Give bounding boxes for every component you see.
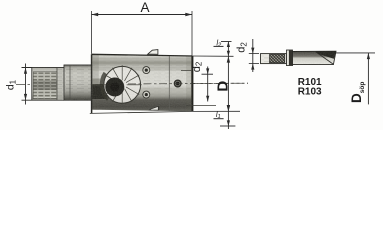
body of boring head (bottom fill edge is shading band, outline lower)	[92, 54, 193, 111]
bar body	[293, 51, 337, 64]
dimension A: dimension line with arrows	[92, 13, 193, 16]
neck streaks	[57, 68, 63, 100]
bottom edge extension line to the right	[192, 110, 240, 112]
dimension d2 bar: outside arrows	[251, 39, 254, 72]
top edge extension line to the right	[192, 55, 234, 57]
bar shank	[261, 54, 287, 64]
dimension A: left extension line	[91, 11, 93, 54]
carbide insert (dark)	[316, 51, 336, 59]
bore hole edge lines at right end	[181, 70, 192, 72]
dimension d2 main view: line and arrows	[206, 67, 209, 102]
collar	[64, 65, 92, 100]
screw on centerline	[174, 80, 181, 87]
screw lower	[143, 91, 150, 98]
centerline of main view	[16, 83, 248, 84]
thread end edge	[56, 68, 58, 100]
body left edge	[91, 54, 93, 113]
screw upper	[143, 67, 150, 74]
body top edge	[92, 54, 193, 56]
top tab on body	[148, 50, 158, 55]
body right edge	[191, 56, 193, 111]
dimension l1: line, arrows, tick	[227, 106, 230, 129]
bottom notch in body	[150, 106, 159, 110]
threaded section	[33, 72, 57, 99]
dimension d1 extension lines / shank crest lines	[22, 67, 65, 69]
dial tick spokes (cross the rim)	[103, 65, 142, 104]
svg-text:A: A	[140, 0, 149, 15]
internal division line	[168, 56, 170, 111]
shank left end face	[31, 68, 33, 101]
centerline dashes over body	[128, 82, 248, 85]
clamp jaw arc hugging dial	[102, 73, 109, 99]
eccentric boss (dark)	[105, 78, 124, 97]
dimension A: right extension line	[191, 11, 193, 56]
dimension d1: dimension line with outward arrows	[24, 64, 27, 105]
dark mid band upper	[92, 58, 192, 65]
collar front edge line	[69, 65, 71, 100]
clamp dark region left of dial	[92, 84, 107, 99]
shank body fill	[32, 68, 64, 100]
diagonal cutting face	[316, 52, 334, 64]
scan grain over metal parts	[32, 51, 336, 111]
Dsop leader line and dimension	[336, 52, 375, 54]
dimension l2: tick, line, arrows	[221, 41, 232, 43]
graduated dial	[104, 66, 141, 103]
dimension D: line with arrows	[227, 56, 230, 111]
bar flange	[287, 50, 293, 66]
knurled block on bar shank	[270, 54, 285, 62]
body bottom outline (thin, below shading)	[90, 111, 192, 113]
svg-text:R103: R103	[298, 87, 322, 98]
